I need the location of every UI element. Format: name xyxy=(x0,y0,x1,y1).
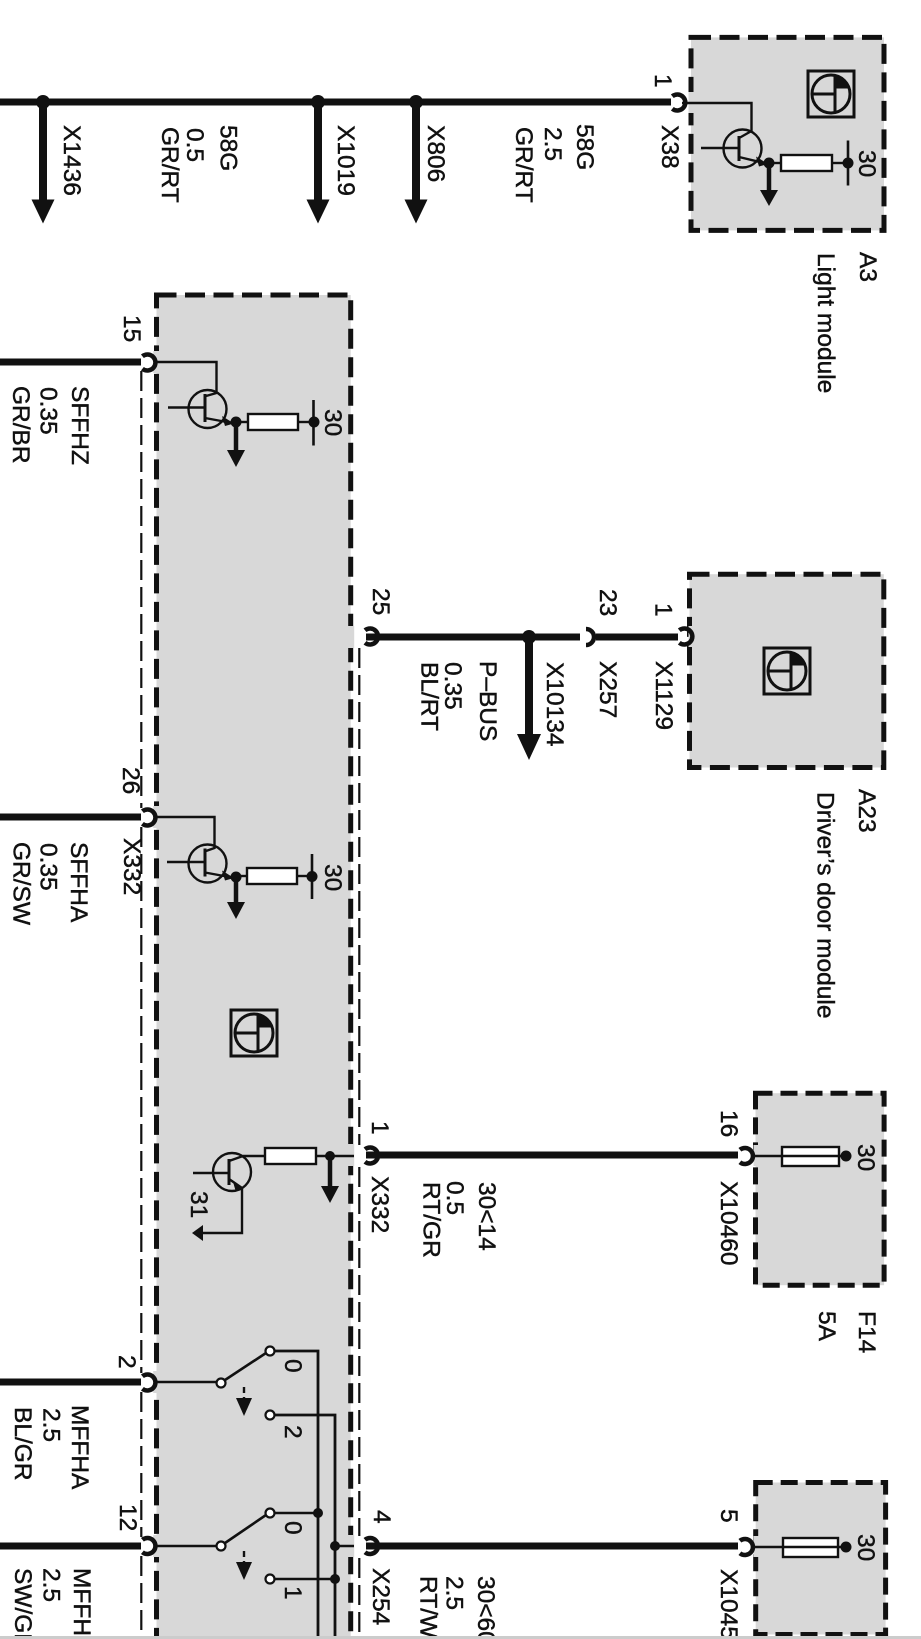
connector face dashed line right of middle module xyxy=(358,648,360,1639)
transistor Q1 xyxy=(168,390,234,428)
wire emitter junction to resistor Q2 xyxy=(236,875,247,877)
svg-text:X1129: X1129 xyxy=(650,661,677,730)
wire pin 5 to fuse X10455 xyxy=(752,1546,783,1548)
pin 4 socket of middle module xyxy=(365,1538,378,1554)
svg-text:0: 0 xyxy=(279,1521,306,1535)
node emitter junction Q1 xyxy=(231,417,242,428)
svg-text:2.5: 2.5 xyxy=(441,1576,468,1610)
svg-text:12: 12 xyxy=(114,1504,141,1531)
wire SFFHA into pin 26 xyxy=(0,814,141,821)
wire emitter junction to resistor A3 xyxy=(769,162,781,164)
svg-text:X806: X806 xyxy=(422,125,449,182)
control unit symbol in A23 xyxy=(764,648,810,694)
svg-text:Driver’s door module: Driver’s door module xyxy=(812,792,839,1019)
svg-text:MFFHA: MFFHA xyxy=(66,1405,93,1490)
wire emitter Q3 to terminal 31 xyxy=(203,1189,242,1233)
svg-text:30: 30 xyxy=(853,150,880,177)
svg-text:X1019: X1019 xyxy=(332,125,359,196)
node junction X1436 xyxy=(36,95,50,109)
wire inside A3 from pin 1 to transistor xyxy=(682,103,752,132)
ground arrow Q1 xyxy=(227,422,245,467)
svg-text:BL/GR: BL/GR xyxy=(9,1407,36,1481)
wire pin 16 to fuse F14 xyxy=(752,1155,782,1157)
wire pin 1 to F14 pin 16 xyxy=(366,1152,738,1159)
svg-text:A3: A3 xyxy=(854,252,881,282)
wire inside module pin 15 to transistor Q1 xyxy=(154,362,217,394)
svg-text:2: 2 xyxy=(279,1425,306,1439)
wire MFFHB into pin 12 xyxy=(0,1543,141,1550)
wire emitter junction to resistor Q1 xyxy=(236,421,248,423)
node junction X806 xyxy=(409,95,423,109)
switch S2 blade xyxy=(225,1515,266,1543)
svg-text:SW/GR: SW/GR xyxy=(9,1568,36,1639)
wire pin 2 to switch pivot xyxy=(154,1381,217,1383)
svg-text:GR/RT: GR/RT xyxy=(156,127,183,203)
svg-text:15: 15 xyxy=(118,315,145,342)
fuse in X10455 xyxy=(783,1538,846,1557)
wire pin 12 to switch pivot xyxy=(154,1545,217,1547)
svg-text:25: 25 xyxy=(367,588,394,615)
node terminal 30 junction Q1 xyxy=(309,417,320,428)
svg-text:SFFHA: SFFHA xyxy=(65,842,92,923)
svg-text:30: 30 xyxy=(852,1534,879,1561)
switch S1 blade xyxy=(225,1353,266,1380)
svg-text:58G: 58G xyxy=(571,124,598,170)
svg-text:30<14: 30<14 xyxy=(473,1182,500,1251)
svg-text:0.35: 0.35 xyxy=(35,387,62,435)
svg-text:1: 1 xyxy=(649,74,676,88)
pin 16 socket of F14 xyxy=(740,1148,753,1164)
svg-text:26: 26 xyxy=(117,767,144,794)
wire line B to pin 4 xyxy=(335,1545,354,1547)
transistor Q3 xyxy=(193,1153,251,1191)
node terminal 30 X10455 xyxy=(841,1542,852,1553)
svg-text:X10455: X10455 xyxy=(715,1569,742,1639)
fuse carrier X10455 box xyxy=(756,1483,886,1635)
wire resistor Q1 to terminal 30 xyxy=(298,421,314,423)
node terminal 30 junction Q2 xyxy=(307,871,318,882)
wire resistor Q3 to pin 1 xyxy=(316,1155,354,1157)
svg-text:P–BUS: P–BUS xyxy=(474,661,501,741)
svg-text:30: 30 xyxy=(852,1144,879,1171)
svg-text:X332: X332 xyxy=(118,838,145,895)
wire collector Q3 to resistor xyxy=(243,1155,265,1157)
pin 1 socket of A3 xyxy=(672,95,685,111)
switch S1 pivot contact xyxy=(217,1379,226,1388)
wire contact 2 to line B xyxy=(275,1415,335,1639)
control unit symbol in A3 xyxy=(808,71,854,117)
svg-text:16: 16 xyxy=(715,1110,742,1137)
node junction X1019 xyxy=(311,95,325,109)
node junction line A xyxy=(313,1508,323,1518)
node terminal 30 F14 xyxy=(841,1151,852,1162)
wire resistor to terminal 30 A3 xyxy=(832,162,848,164)
svg-text:5A: 5A xyxy=(813,1311,840,1342)
svg-text:0: 0 xyxy=(279,1359,306,1373)
resistor Q2 xyxy=(247,868,297,884)
pin 12 socket of middle module xyxy=(142,1538,155,1554)
module A3 Light module box xyxy=(691,37,884,230)
terminal 30 bar Q1 xyxy=(312,400,315,446)
wire 58G bus to A3 pin 1 xyxy=(0,99,671,106)
node emitter junction A3 xyxy=(764,158,775,169)
svg-text:58G: 58G xyxy=(215,125,242,171)
pin 5 socket of X10455 xyxy=(740,1539,753,1555)
svg-text:2.5: 2.5 xyxy=(38,1568,65,1602)
svg-text:2.5: 2.5 xyxy=(38,1408,65,1442)
resistor Q3 xyxy=(265,1148,316,1164)
connector face dashed line left of middle module xyxy=(140,371,142,1639)
switch S2 actuation arrow xyxy=(236,1551,252,1580)
wire branch arrow X1019 xyxy=(307,102,330,224)
border notches at pin crossings xyxy=(153,92,760,1557)
node emitter junction Q2 xyxy=(231,872,242,883)
fuse F14 xyxy=(782,1147,846,1166)
fuse carrier F14 box xyxy=(756,1093,885,1285)
svg-text:1: 1 xyxy=(366,1121,393,1135)
svg-text:X10134: X10134 xyxy=(541,662,568,746)
svg-text:1: 1 xyxy=(279,1586,306,1600)
middle module box (general module, cut off at bottom) xyxy=(157,295,351,1639)
node junction line B xyxy=(330,1574,340,1584)
wire inside module pin 26 to transistor Q2 xyxy=(154,817,215,849)
svg-text:SFFHZ: SFFHZ xyxy=(66,386,93,465)
svg-text:0.5: 0.5 xyxy=(181,128,208,162)
svg-text:5: 5 xyxy=(715,1509,742,1523)
svg-text:RT/GR: RT/GR xyxy=(418,1182,445,1258)
node junction X10134 xyxy=(522,630,536,644)
svg-text:30: 30 xyxy=(319,864,346,891)
switch S1 contact 0 xyxy=(266,1347,275,1356)
svg-text:RT/WS: RT/WS xyxy=(415,1576,442,1639)
wire pin 4 to X10455 pin 5 xyxy=(366,1543,738,1550)
pin 1 socket right of middle module xyxy=(365,1148,378,1164)
wire contact 0 to line A xyxy=(275,1351,318,1639)
switch S2 contact 0 xyxy=(266,1509,275,1518)
branch arrow X332 xyxy=(321,1156,339,1203)
switch S1 contact 2 xyxy=(266,1411,275,1420)
svg-text:X254: X254 xyxy=(367,1568,394,1625)
svg-text:30: 30 xyxy=(319,409,346,436)
wire branch arrow X10134 xyxy=(517,637,541,760)
ground arrow in A3 xyxy=(760,163,778,206)
svg-text:X38: X38 xyxy=(656,125,683,169)
svg-text:BL/RT: BL/RT xyxy=(416,662,443,731)
switch S1 actuation arrow xyxy=(236,1387,252,1416)
switch S2 contact 1 xyxy=(266,1575,275,1584)
svg-text:0.35: 0.35 xyxy=(35,843,62,891)
wire branch arrow X1436 xyxy=(32,102,55,224)
svg-text:1: 1 xyxy=(650,603,677,617)
wire X257 to A23 pin 1 xyxy=(596,634,678,641)
svg-text:Light module: Light module xyxy=(812,253,839,393)
wire branch arrow X806 xyxy=(405,102,428,224)
svg-text:X10460: X10460 xyxy=(715,1181,742,1265)
scan artifact line at bottom xyxy=(0,1636,921,1639)
wire resistor Q2 to terminal 30 xyxy=(297,875,312,877)
svg-text:4: 4 xyxy=(368,1510,395,1524)
svg-text:2.5: 2.5 xyxy=(539,127,566,161)
svg-text:X1436: X1436 xyxy=(58,125,85,196)
resistor Q1 xyxy=(248,414,298,430)
svg-text:MFFHB: MFFHB xyxy=(68,1568,95,1639)
ground arrow Q2 xyxy=(227,877,245,919)
svg-text:30<60: 30<60 xyxy=(472,1576,499,1639)
node junction line B to pin 4 xyxy=(330,1541,340,1551)
svg-text:2: 2 xyxy=(113,1355,140,1369)
terminal 30 bar Q2 xyxy=(311,854,314,899)
module A23 Driver's door module box xyxy=(690,574,884,767)
transistor in A3 xyxy=(701,130,768,168)
wire SFFHZ into pin 15 xyxy=(0,359,141,366)
node junction X332 arrow xyxy=(325,1151,335,1161)
resistor in A3 xyxy=(781,155,832,171)
wire P-BUS from pin 25 xyxy=(366,634,580,641)
svg-text:GR/RT: GR/RT xyxy=(510,127,537,203)
wire contact 1 to line B junction xyxy=(275,1578,335,1580)
terminal 31 ground tick xyxy=(192,1225,203,1241)
wire contact 0 to line A junction xyxy=(275,1512,318,1514)
pin 1 socket of A23 xyxy=(679,629,692,645)
pin 25 socket of middle module xyxy=(365,629,378,645)
control unit symbol in middle module xyxy=(231,1010,277,1056)
wire MFFHA into pin 2 xyxy=(0,1379,141,1386)
pin 15 socket of middle module xyxy=(142,355,155,371)
svg-text:GR/SW: GR/SW xyxy=(8,842,35,926)
connector break X257 xyxy=(586,629,594,645)
transistor Q2 xyxy=(167,845,234,883)
svg-text:X257: X257 xyxy=(594,661,621,718)
pin 26 socket of middle module xyxy=(142,809,155,825)
terminal 30 bar A3 xyxy=(847,141,850,186)
svg-text:A23: A23 xyxy=(853,789,880,833)
svg-text:GR/BR: GR/BR xyxy=(7,386,34,464)
switch S2 pivot contact xyxy=(217,1542,226,1551)
node terminal 30 junction A3 xyxy=(843,158,854,169)
svg-text:X332: X332 xyxy=(366,1176,393,1233)
svg-text:31: 31 xyxy=(185,1191,212,1218)
pin 2 socket of middle module xyxy=(142,1375,155,1391)
svg-text:23: 23 xyxy=(594,589,621,616)
svg-text:F14: F14 xyxy=(853,1311,880,1353)
